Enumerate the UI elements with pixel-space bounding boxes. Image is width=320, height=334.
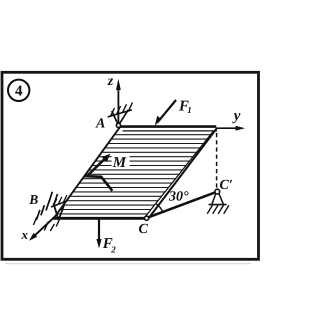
svg-text:z: z [107, 74, 114, 89]
svg-text:B: B [28, 192, 38, 207]
svg-text:M: M [112, 155, 127, 171]
svg-text:4: 4 [15, 84, 23, 100]
svg-text:A: A [95, 117, 105, 132]
svg-text:C: C [139, 222, 149, 237]
svg-text:C′: C′ [220, 178, 233, 193]
svg-text:1: 1 [187, 105, 192, 115]
svg-text:2: 2 [110, 245, 116, 255]
svg-text:x: x [21, 227, 29, 242]
svg-text:30°: 30° [168, 189, 189, 204]
svg-text:y: y [232, 108, 241, 124]
